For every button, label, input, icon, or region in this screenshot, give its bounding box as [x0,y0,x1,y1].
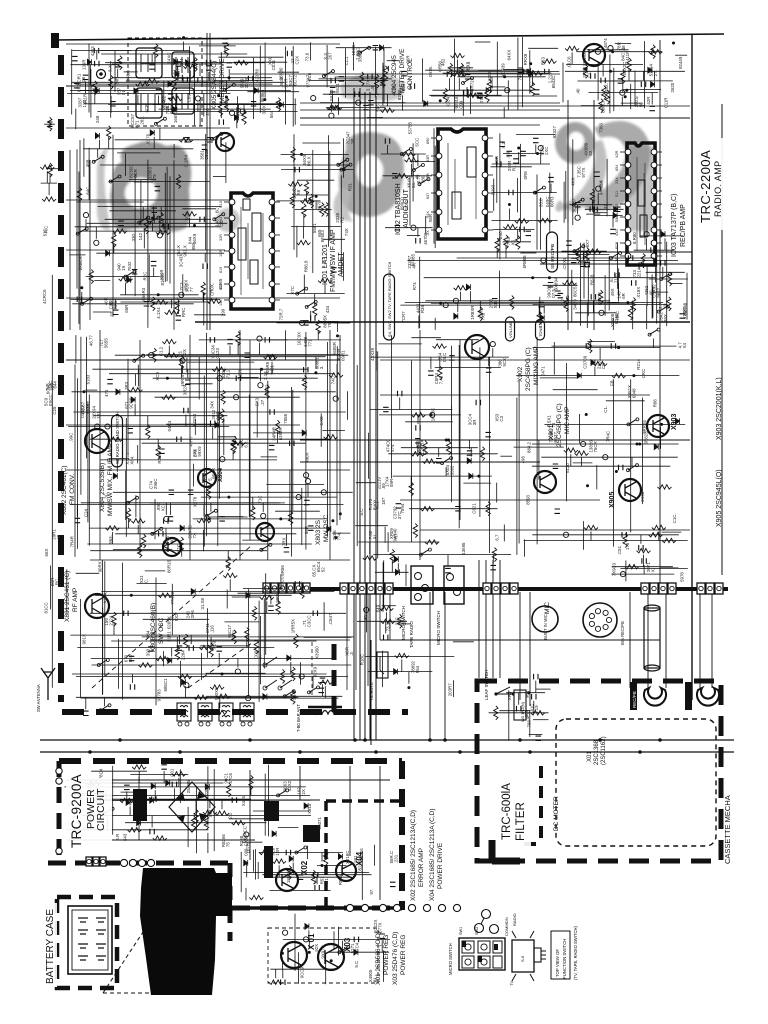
svg-text:X.: X. [651,568,656,572]
svg-text:2X85: 2X85 [640,491,645,502]
wire [503,68,523,70]
svg-text:3R4: 3R4 [179,58,184,67]
wire [236,107,238,128]
resistor R992 [204,816,208,830]
wire [185,415,187,427]
resistor R815 [193,58,197,72]
wire [660,427,662,449]
wire [532,534,679,536]
capacitor C969 [96,797,100,803]
resistor R1007 [269,980,283,984]
switch S4-6 [309,687,317,692]
capacitor C875 [548,177,554,181]
wire [496,483,498,503]
terminal node [157,233,162,238]
wire [607,301,620,303]
wire [159,128,161,140]
svg-text:4X0: 4X0 [615,229,619,236]
long wire J [567,100,569,330]
svg-text:X631: X631 [335,83,340,94]
terminal node [235,669,240,674]
svg-text:9C9: 9C9 [211,640,216,649]
resistor R865 [304,181,308,195]
wire [259,852,343,854]
wire [382,950,384,982]
switch S1-3 [111,177,119,182]
capacitor C857 [152,208,158,212]
capacitor C927 [383,407,389,411]
svg-text:1XC: 1XC [544,147,549,156]
wire [332,94,334,103]
wire [536,337,538,544]
wire [246,639,248,648]
IF transformer T4 [240,703,254,721]
wire [347,391,349,419]
wire [280,574,282,588]
svg-text:1R8XR: 1R8XR [470,306,475,320]
wire [111,640,316,642]
wire [130,774,188,776]
svg-text:9622: 9622 [656,287,661,297]
svg-text:CC1: CC1 [344,56,349,65]
wire [237,659,239,668]
wire [457,257,655,259]
wire [275,510,320,512]
resistor R970 [209,643,213,657]
svg-text:27.: 27. [653,70,658,76]
terminal node [179,292,184,297]
capacitor C940 [449,356,455,360]
resistor R842 [599,99,603,113]
power box bottom dashed border [232,906,402,911]
capacitor C942 [622,532,626,538]
transistor X905 [534,471,556,493]
resistor R996 [172,772,186,776]
wire [229,346,231,355]
svg-text:MIC AMP: MIC AMP [564,407,571,434]
wire [225,142,227,183]
resistor R889 [631,298,635,312]
svg-text:12R: 12R [275,848,280,856]
wire [145,570,165,572]
svg-text:59R: 59R [389,479,394,487]
black rect 3 [303,825,320,842]
wire [387,145,389,154]
svg-text:2SC1368: 2SC1368 [594,739,600,765]
wire [115,299,117,308]
svg-text:TRC-9200A: TRC-9200A [69,774,84,848]
svg-text:6C72: 6C72 [292,75,297,86]
terminal node [220,457,225,462]
junction node [624,95,627,98]
wire [675,54,687,56]
wire [44,123,55,125]
svg-text:798: 798 [527,720,532,728]
resistor R848 [165,310,179,314]
wire [388,453,497,455]
wire [76,149,78,288]
svg-text:X801 2SC461 (C): X801 2SC461 (C) [64,571,71,622]
wire [514,446,564,448]
diode D965 [174,59,178,65]
switch S3-2 [650,330,658,335]
separator junction dots [118,738,122,742]
wire [182,274,184,296]
wire [124,154,126,177]
svg-text:CC: CC [219,220,224,226]
svg-text:33.0: 33.0 [538,198,543,207]
junction node [529,62,532,65]
smudge over IC03 [628,146,656,231]
wire [201,496,337,498]
long wire O [66,85,376,87]
resistor R851 [151,297,155,311]
svg-text:.71C: .71C [257,496,262,505]
resistor R802 [242,111,246,125]
wire [418,316,420,329]
wire [443,72,550,74]
label VOLUME [506,317,515,341]
svg-text:C4.: C4. [173,68,178,75]
svg-text:434: 434 [325,305,330,313]
tp-802 test point [97,70,106,79]
svg-text:R31: R31 [348,183,353,192]
resistor R1013 [42,197,56,201]
wire [400,623,412,625]
wire [597,62,599,101]
capacitor C807 [110,102,116,106]
switch S3-9 [421,550,429,555]
terminal node [299,674,304,679]
wire [292,46,294,127]
diode D943 [150,798,154,804]
wire [493,179,495,211]
terminal node [563,532,568,537]
wire [376,85,378,94]
wire [155,396,300,398]
wire [225,621,260,623]
wire [219,696,221,708]
resistor R882 [585,247,589,261]
wire [125,822,266,824]
svg-text:643: 643 [123,833,128,841]
wire [72,50,190,52]
switch S5-4 [339,947,347,952]
capacitor C975 [354,937,358,943]
wire [110,61,112,118]
wire [98,206,222,208]
svg-text:53755: 53755 [408,122,413,135]
wire [159,219,161,231]
diode D891 [95,133,99,139]
wire [80,599,82,698]
capacitor C978 [534,674,538,680]
resistor R985 [379,606,393,610]
diode D869 [304,803,308,809]
svg-text:1C6: 1C6 [307,72,312,81]
IC03 internal blocks [638,180,645,206]
function switch body [512,940,534,972]
wire [105,218,211,220]
capacitor C879 [533,138,539,142]
wire [417,154,419,166]
wire [79,90,95,92]
svg-text:X804 2SC535(B): X804 2SC535(B) [99,463,106,512]
svg-text:25X: 25X [165,103,170,111]
svg-text:X806 2SC460(B): X806 2SC460(B) [150,603,157,652]
terminal node [490,342,495,347]
wire [405,421,453,423]
svg-text:7X: 7X [192,533,197,538]
capacitor C903 [245,353,251,357]
svg-text:RR6: RR6 [113,300,118,309]
svg-text:2809: 2809 [275,592,280,602]
resistor R935 [411,413,425,417]
resistor R944 [413,524,417,538]
resistor R909 [162,339,176,343]
wire [108,137,110,149]
wire [203,94,205,117]
wire [296,194,329,196]
svg-text:X903: X903 [671,414,678,430]
wire [199,339,341,341]
wire [76,572,100,574]
switch S1-9 [338,160,346,165]
svg-text:X74: X74 [390,444,395,452]
svg-text:.116: .116 [210,625,215,634]
wire [207,766,209,826]
svg-text:R0.X: R0.X [306,156,311,166]
wire [341,941,343,955]
wire [245,888,247,901]
capacitor C876 [509,190,513,196]
long wire U [240,330,340,560]
capacitor C811 [206,66,212,70]
wire [596,465,598,489]
wire [88,394,90,545]
diode D908 [395,569,399,575]
svg-text:47R7: 47R7 [189,436,194,447]
wire [287,293,345,295]
capacitor C869 [331,268,337,272]
wire [491,166,532,168]
resistor R893 [504,235,508,249]
svg-text:0XCC: 0XCC [48,394,53,406]
capacitor C851 [591,73,595,79]
svg-text:R400: R400 [373,499,378,510]
wire [237,105,239,114]
capacitor C813 [115,63,121,67]
switch S4-2 [99,660,107,665]
resistor R966 [276,600,280,614]
wire [308,939,310,948]
wire [326,107,385,109]
wire [319,321,338,323]
wire [204,253,206,262]
long wire W [100,330,190,560]
long wire N (to heads) [630,592,712,688]
svg-text:X5: X5 [511,239,516,245]
wire [401,660,403,672]
resistor R894 [598,290,602,304]
svg-text:8R56: 8R56 [280,565,285,576]
wire [137,445,139,463]
svg-text:X7C: X7C [290,286,295,295]
wire [336,346,338,400]
wire [92,664,352,666]
capacitor C974 [390,882,396,886]
svg-text:09.C: 09.C [442,353,447,362]
resistor R926 [141,534,145,548]
wire [155,578,157,706]
svg-text:49X: 49X [610,288,615,296]
svg-text:9CC9: 9CC9 [300,967,305,979]
svg-text:198: 198 [363,615,368,623]
svg-text:746: 746 [518,73,523,81]
wire [285,330,287,360]
wire [90,438,330,440]
transistor X904 [583,44,605,66]
junction node [193,224,196,227]
long wire D [195,321,690,323]
svg-text:7.43: 7.43 [439,375,444,384]
wire [166,167,168,282]
wire [196,786,198,853]
svg-text:W3 1N2(N): W3 1N2(N) [520,701,525,722]
svg-text:CX3: CX3 [255,397,260,406]
terminal node [595,49,600,54]
resistor R957 [112,612,116,626]
wire [660,567,678,569]
wire [315,357,317,369]
resistor R941 [411,452,425,456]
capacitor C935 [455,507,461,511]
wire [117,69,119,78]
switch S4-2 [659,307,667,312]
wire [107,818,109,830]
switch S2-5 [574,246,582,251]
transistor X805 [216,133,234,151]
svg-text:MIXING AMP: MIXING AMP [533,346,540,385]
diode D837 [305,924,309,930]
svg-text:7558: 7558 [283,413,288,423]
svg-text:RADIO: RADIO [512,913,517,926]
svg-text:RRC: RRC [181,308,186,318]
wire [328,951,389,953]
wire [118,639,120,689]
resistor R860 [175,299,179,313]
smudge over IC01 pins [216,208,240,232]
wire [234,61,288,63]
svg-text:2SC458PG (C): 2SC458PG (C) [556,403,563,447]
svg-text:9CX: 9CX [502,358,507,367]
svg-text:9X894: 9X894 [554,277,559,290]
resistor R849 [107,126,111,140]
junction node [166,377,169,380]
resistor R994 [191,816,195,830]
capacitor C936 [415,439,421,443]
wire [102,560,104,695]
wire [171,584,173,635]
wire [375,47,377,98]
svg-text:C1C.: C1C. [672,513,677,523]
capacitor C922 [127,429,132,433]
svg-text:C.1R4: C.1R4 [183,154,188,167]
capacitor C886 [585,262,589,268]
wire [207,608,209,657]
wire [498,271,500,309]
wire [70,634,234,636]
wire [540,152,542,164]
svg-text:IC03 TA7137P (B,C): IC03 TA7137P (B,C) [671,194,678,257]
wire [232,451,234,460]
svg-text:511: 511 [615,191,619,197]
wire [132,674,134,683]
resistor R973 [213,710,227,714]
wire [382,63,384,105]
svg-text:X278: X278 [193,496,198,507]
resistor R953 [584,525,598,529]
wire [109,458,130,460]
svg-text:9CC0: 9CC0 [128,397,133,409]
junction node [130,594,133,597]
capacitor C825 [330,88,336,92]
svg-text:64.: 64. [411,182,416,188]
svg-text:X815: X815 [307,803,312,814]
capacitor C908 [290,441,294,447]
svg-text:8R49X: 8R49X [582,52,587,65]
svg-text:961X: 961X [82,634,87,644]
terminal node [99,793,104,798]
svg-text:7CR7: 7CR7 [401,311,406,323]
svg-text:X218C: X218C [345,851,350,864]
wire [475,41,491,43]
wire [608,256,610,310]
wire [186,383,213,385]
switch S4-3 [297,289,305,294]
svg-text:254R5: 254R5 [186,780,191,793]
wire [154,499,156,539]
wire [176,637,178,649]
wire [74,778,76,818]
wire [90,550,267,552]
long wire Y [380,360,690,530]
wire [410,164,412,176]
wire [151,54,153,63]
wire [199,64,201,76]
capacitor C959 [148,647,154,651]
wire [207,833,209,853]
IC03 TA7137P [627,143,655,265]
svg-text:23X: 23X [615,177,619,184]
separator line lower [40,751,734,753]
wire [205,134,207,250]
terminal node [304,473,309,478]
svg-text:X 01: X 01 [307,933,316,950]
switch S8-4 [420,179,428,184]
switch S1-5 [628,465,636,470]
wire [179,769,181,803]
long wire G [300,461,540,463]
svg-text:84R: 84R [115,77,120,85]
svg-text:34X: 34X [210,401,215,409]
wire [84,103,277,105]
wire [164,356,326,358]
resistor R852 [119,277,133,281]
svg-text:.C9X1: .C9X1 [562,257,567,270]
dc motor dashed box [556,719,716,846]
long wire C [540,263,692,265]
